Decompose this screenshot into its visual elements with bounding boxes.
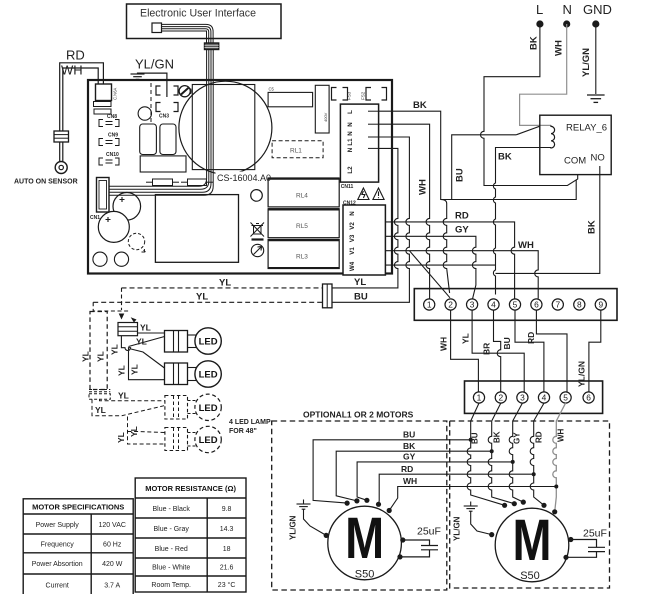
svg-text:CN1: CN1 (90, 215, 100, 221)
LED1 lamp (188, 334, 197, 336)
terminal N (563, 20, 570, 27)
LED3 lamp (dashed) (188, 400, 197, 402)
svg-text:MOTOR SPECIFICATIONS: MOTOR SPECIFICATIONS (32, 503, 124, 512)
ferrite bead on sensor cable (54, 131, 69, 142)
wire YL block to LED1 (138, 332, 165, 334)
svg-text:GND: GND (583, 2, 612, 17)
LED4 connector (dashed) (165, 428, 188, 451)
fuse FS3 bracket (332, 88, 348, 101)
relay NO wire BK down to bus (496, 166, 600, 273)
wire YL dashed to lamp (lower) (93, 301, 322, 303)
svg-text:RL1: RL1 (290, 148, 302, 155)
wire WH terminal 2 to lower 1 (451, 310, 479, 392)
svg-text:N: N (347, 122, 354, 127)
wire N bus from W4 (385, 264, 495, 266)
svg-text:RD: RD (66, 48, 85, 63)
svg-text:5: 5 (513, 300, 518, 310)
svg-text:AUTO ON SENSOR: AUTO ON SENSOR (14, 179, 78, 186)
svg-text:FS3: FS3 (347, 91, 352, 100)
connector CN1 (ribbon) (97, 178, 110, 213)
svg-text:3.7 A: 3.7 A (104, 583, 120, 590)
svg-text:YL/GN: YL/GN (581, 48, 592, 77)
svg-text:1: 1 (427, 300, 432, 310)
svg-text:BU: BU (502, 337, 512, 349)
wire YL terminal 3 to lower 3 (472, 310, 524, 392)
dashed line (board partition) (150, 83, 152, 124)
svg-text:N: N (349, 211, 356, 216)
connector CN6A (96, 84, 112, 101)
svg-text:2: 2 (448, 300, 453, 310)
relay coil (551, 125, 555, 148)
wire WH CN11 pin N to terminal 1 (379, 124, 430, 298)
svg-text:RL5: RL5 (296, 223, 308, 230)
marking circle K2 (251, 190, 263, 202)
board label CS-16004.A0 (216, 172, 265, 184)
wire GY from W4 to terminal 3 (385, 236, 476, 299)
wire YL dashed to LED4 upper (128, 432, 165, 433)
TS2 terminal circles 1-6 (473, 392, 594, 403)
svg-text:BR: BR (482, 343, 492, 355)
motor 2 ground symbol (464, 502, 492, 535)
svg-text:WH: WH (439, 337, 449, 351)
svg-text:7: 7 (555, 300, 560, 310)
svg-text:YL: YL (354, 277, 366, 288)
svg-text:COM: COM (564, 156, 586, 167)
svg-text:CN10: CN10 (106, 152, 119, 158)
svg-text:60 Hz: 60 Hz (103, 541, 122, 548)
svg-text:WH: WH (554, 40, 565, 56)
wire WH lower5 to motor 2 (grey) (553, 403, 566, 512)
svg-text:Frequency: Frequency (41, 541, 75, 548)
svg-text:9.8: 9.8 (222, 506, 232, 513)
svg-text:NO: NO (591, 153, 605, 164)
electrolytic capacitor C4 (98, 211, 129, 242)
wire WH from W4 to terminal 6 (385, 251, 538, 299)
svg-text:Power Supply: Power Supply (36, 522, 80, 529)
svg-text:FOR 48": FOR 48" (229, 428, 257, 435)
wire BU lower1 to motor 2 (467, 403, 504, 505)
wire BR terminal 4 to lower 2 (494, 310, 501, 392)
svg-text:RL3: RL3 (296, 254, 308, 261)
svg-text:Room Temp.: Room Temp. (151, 582, 191, 589)
wire GY lower3 to motor 2 (509, 403, 523, 502)
wire BU CN11 pin to LED feed (332, 137, 409, 302)
svg-text:Blue - Gray: Blue - Gray (153, 526, 189, 533)
svg-text:L2: L2 (347, 166, 354, 174)
svg-text:N: N (347, 131, 354, 136)
wire YL diagonal to LED1 (129, 337, 165, 347)
wire YL dashed to lamp (122, 287, 323, 289)
svg-text:YL/GN: YL/GN (453, 516, 462, 541)
Electronic User Interface box (127, 4, 282, 39)
svg-text:RD: RD (401, 464, 413, 474)
svg-text:S50: S50 (355, 569, 375, 581)
svg-text:5: 5 (563, 393, 568, 403)
svg-text:GY: GY (455, 225, 469, 236)
svg-text:BU: BU (455, 168, 466, 182)
svg-text:YL: YL (110, 344, 120, 355)
EUI ribbon cable (4 wires) (162, 24, 214, 43)
svg-text:120 VAC: 120 VAC (98, 522, 126, 529)
motor 2 terminal dots (489, 500, 573, 560)
LED feed connector (inline plug) (323, 284, 333, 308)
grounding screw (179, 86, 190, 97)
svg-text:V2: V2 (349, 222, 356, 230)
svg-text:YL: YL (136, 337, 147, 347)
wire YL diagonal to LED2 (131, 349, 165, 368)
wire RD from W4 to terminal 5 (385, 222, 514, 299)
svg-text:MOTOR RESISTANCE (Ω): MOTOR RESISTANCE (Ω) (145, 484, 236, 493)
svg-text:C.N6A: C.N6A (113, 87, 118, 100)
sensor wire RD (60, 63, 104, 131)
svg-text:BU: BU (403, 429, 415, 439)
svg-text:Power Absortion: Power Absortion (32, 561, 83, 568)
wire BK from L to relay COM junction (481, 24, 578, 186)
svg-text:M: M (513, 508, 552, 573)
svg-text:WH: WH (418, 179, 429, 195)
recycle circle symbol (251, 244, 263, 256)
wire RD terminal 6 to lower 5 (536, 310, 567, 392)
wire YL/GN from GND to earth (595, 24, 597, 94)
svg-text:V3: V3 (349, 234, 356, 242)
svg-text:YL: YL (140, 323, 151, 333)
relay RL4 (268, 178, 339, 207)
arrow lead in (second) (93, 302, 130, 311)
board earth ground symbol (131, 73, 167, 97)
svg-text:Current: Current (46, 583, 69, 590)
svg-text:S50: S50 (520, 570, 540, 582)
small circle C0 (138, 107, 151, 120)
svg-text:WH: WH (557, 428, 566, 442)
svg-text:RD: RD (455, 211, 469, 222)
svg-text:14.3: 14.3 (220, 526, 234, 533)
ribbon cable lower run into PCB (109, 50, 213, 196)
svg-text:YL: YL (196, 292, 208, 303)
resistor R1 (153, 179, 173, 186)
svg-text:OPTIONAL1 OR 2 MOTORS: OPTIONAL1 OR 2 MOTORS (303, 410, 414, 420)
wire YL dashed to LED3 lower (92, 399, 165, 416)
LED3 connector (dashed) (165, 396, 188, 420)
svg-text:GY: GY (513, 432, 522, 444)
svg-text:YL: YL (116, 432, 126, 443)
tall component right (315, 85, 329, 133)
motor 1 ground symbol (297, 500, 327, 536)
svg-text:FS2: FS2 (361, 91, 366, 100)
warning triangle (shock) (358, 188, 369, 200)
svg-text:9: 9 (598, 300, 603, 310)
terminal strip TS2 (6 way) (465, 381, 603, 413)
svg-text:23 °C: 23 °C (218, 581, 236, 589)
svg-text:C5: C5 (269, 87, 275, 92)
svg-text:RD: RD (526, 332, 536, 344)
svg-text:BK: BK (403, 441, 416, 451)
svg-text:RL4: RL4 (296, 193, 308, 200)
svg-text:M: M (345, 506, 384, 571)
svg-text:2: 2 (498, 393, 503, 403)
svg-text:YL: YL (129, 426, 139, 437)
fuse FS2 bracket (366, 88, 387, 101)
relay RL5 (268, 209, 339, 238)
wire BK to motor 1 (336, 451, 492, 501)
svg-text:CS-16004.A0: CS-16004.A0 (217, 173, 271, 183)
svg-text:YL: YL (118, 391, 129, 401)
lamp terminal block (118, 323, 138, 336)
TS1 terminal circles 1-9 (424, 299, 607, 310)
capacitor CT (dashed) (128, 233, 144, 249)
svg-text:YL: YL (96, 351, 106, 362)
motor 1 terminal dots (324, 498, 406, 560)
svg-text:3: 3 (470, 300, 475, 310)
sensor wire WH (63, 68, 98, 131)
terminal L (536, 20, 543, 27)
motor 1 body (328, 506, 402, 580)
small capacitor C8 (93, 252, 107, 266)
svg-text:LED: LED (199, 435, 218, 446)
arrow lead in (left) (121, 288, 123, 310)
wire diagonal to terminal 2 (409, 251, 450, 298)
svg-text:420 W: 420 W (102, 561, 123, 568)
connector CN3 (156, 86, 178, 112)
EUI connector stub (152, 23, 162, 33)
svg-text:L: L (536, 2, 543, 17)
svg-text:3: 3 (520, 393, 525, 403)
wire BK lower2 to motor 2 (488, 403, 514, 504)
capacitor block C10 (160, 124, 176, 155)
svg-text:25uF: 25uF (583, 528, 607, 540)
svg-text:YL: YL (461, 333, 471, 344)
svg-text:Blue - Black: Blue - Black (153, 506, 191, 513)
svg-text:4 LED LAMP: 4 LED LAMP (229, 419, 271, 426)
svg-text:6: 6 (534, 300, 539, 310)
svg-text:CN9: CN9 (108, 133, 118, 139)
block under capacitors (140, 156, 186, 172)
wire YL dashed to LED3 (100, 399, 165, 401)
sensor cable lower (59, 142, 61, 161)
LED2 lamp (188, 367, 197, 369)
motor 2 dashed enclosure (450, 421, 610, 588)
resistor R2 (188, 179, 207, 186)
small capacitor C7 (114, 252, 128, 266)
svg-text:W4: W4 (349, 261, 356, 271)
ground symbol (mains earth) (587, 95, 605, 102)
svg-text:LED: LED (199, 337, 218, 348)
svg-text:L: L (347, 110, 354, 114)
svg-text:BK: BK (413, 100, 427, 111)
svg-text:4: 4 (491, 300, 496, 310)
LED4 lamp (dashed) (188, 432, 197, 434)
wire YL/GN terminal 9 to lower 6 (589, 310, 601, 392)
relay RL3 (268, 240, 339, 269)
wire YL CN11 pin to LED feed (332, 148, 398, 288)
wire BU terminal 5 to lower 4 (515, 310, 544, 392)
svg-text:Blue - White: Blue - White (152, 565, 190, 572)
svg-text:YL/GN: YL/GN (135, 57, 174, 72)
svg-text:YL: YL (81, 351, 91, 362)
svg-text:21.6: 21.6 (220, 565, 234, 572)
svg-text:CN3: CN3 (159, 114, 169, 120)
svg-text:BK: BK (493, 431, 502, 443)
svg-text:4: 4 (542, 393, 547, 403)
table MOTOR RESISTANCE (135, 478, 246, 592)
svg-text:WH: WH (518, 240, 534, 251)
lamp tube (dashed) (90, 312, 107, 390)
auto on sensor eye (55, 162, 67, 174)
wire YL block down to LED2 (121, 336, 164, 380)
motor 1 dashed enclosure (272, 421, 447, 590)
lamp end cap (89, 389, 110, 391)
wire WH to motor 1 (389, 487, 556, 511)
svg-text:YL: YL (219, 277, 231, 288)
relay coil bottom wire BK to board (493, 148, 551, 295)
svg-text:RD: RD (535, 431, 544, 443)
wire BU switch feed (452, 135, 517, 200)
wire YL dashed to LED4 (128, 417, 165, 445)
PCB board outline (88, 80, 392, 274)
WEEE crossed out bin symbol (251, 223, 265, 237)
LED1 connector (165, 331, 188, 353)
svg-text:Blue - Red: Blue - Red (155, 546, 188, 553)
wire RD to motor 1 (379, 474, 534, 504)
motor 2 body (495, 508, 569, 582)
electrolytic capacitor C6 (113, 193, 141, 221)
warning triangle (caution) (373, 188, 384, 200)
svg-text:YL: YL (130, 364, 140, 375)
wire BK jog to terminal 2 (441, 200, 450, 294)
transformer block (155, 195, 238, 263)
svg-text:LED: LED (199, 370, 218, 381)
table MOTOR SPECIFICATIONS (23, 499, 133, 594)
ferrite bead on ribbon (205, 43, 219, 50)
relay RL1 (dashed) (272, 141, 323, 158)
svg-text:BK: BK (587, 220, 598, 234)
svg-text:YL: YL (95, 405, 106, 415)
svg-text:Electronic User Interface: Electronic User Interface (140, 8, 256, 20)
wire BK from CN11 pin L to relay COM (379, 111, 577, 199)
svg-text:V1: V1 (349, 247, 356, 255)
svg-text:WH: WH (403, 476, 417, 486)
svg-text:GY: GY (403, 452, 416, 462)
svg-text:N: N (563, 2, 572, 17)
svg-text:BU: BU (354, 292, 368, 303)
svg-text:YL: YL (117, 365, 127, 376)
wire BU to motor 1 (313, 440, 471, 503)
svg-text:6: 6 (586, 393, 591, 403)
svg-text:CN11: CN11 (341, 184, 354, 190)
svg-text:N: N (347, 147, 354, 152)
svg-text:1: 1 (477, 393, 482, 403)
terminal GND (592, 20, 599, 27)
svg-text:L1: L1 (347, 138, 354, 146)
svg-text:LED: LED (199, 403, 218, 414)
connector CN11 (340, 104, 378, 182)
svg-text:BK: BK (529, 36, 540, 50)
relay RELAY_6 box (540, 115, 611, 174)
svg-text:RELAY_6: RELAY_6 (566, 123, 607, 134)
wire WH from N to relay coil top (grey) (520, 24, 567, 125)
svg-text:BK: BK (498, 152, 512, 163)
big capacitor square (192, 85, 255, 170)
wire RD lower4 to motor 2 (530, 403, 544, 505)
component C5 (268, 92, 313, 106)
svg-text:YL/GN: YL/GN (289, 515, 298, 540)
big capacitor circle (179, 81, 272, 174)
terminal strip TS1 (9 way) (414, 289, 617, 321)
svg-text:BU: BU (471, 432, 480, 444)
svg-text:25uF: 25uF (417, 526, 441, 538)
connector CN12/W4 (343, 205, 385, 275)
svg-text:YL/GN: YL/GN (577, 361, 587, 387)
svg-text:WH: WH (61, 63, 83, 78)
LED2 connector (165, 363, 188, 385)
svg-text:400V: 400V (323, 112, 328, 122)
capacitor block C9 (140, 124, 157, 155)
svg-text:8: 8 (577, 300, 582, 310)
wire GY to motor 1 (357, 462, 513, 500)
svg-text:18: 18 (223, 546, 231, 553)
relay switch arm (516, 126, 540, 135)
